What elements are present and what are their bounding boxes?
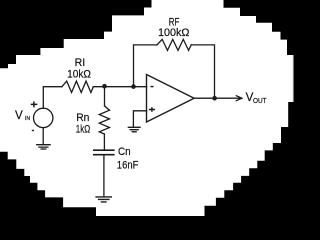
svg-text:V: V bbox=[15, 109, 23, 122]
black corner mask top-right bbox=[224, 0, 295, 55]
wire source bottom to ground bbox=[42, 128, 44, 145]
voltage source V_in circle bbox=[34, 108, 53, 127]
wire RF right to feedback vertical bbox=[191, 45, 214, 98]
ground under V_in bbox=[37, 145, 50, 149]
resistor Rn vertical zigzag bbox=[99, 106, 109, 134]
wire main horizontal left segment bbox=[43, 87, 62, 109]
black corner mask top-left bbox=[0, 0, 152, 68]
wire capacitor to ground bbox=[103, 156, 105, 197]
wire Rn to capacitor bbox=[103, 134, 105, 150]
resistor RI zigzag bbox=[62, 81, 93, 92]
capacitor Cn plates bbox=[94, 150, 114, 155]
svg-text:10kΩ: 10kΩ bbox=[67, 68, 91, 80]
black corner mask bottom-left bbox=[0, 152, 96, 216]
svg-text:16nF: 16nF bbox=[117, 160, 139, 172]
resistor RF zigzag bbox=[157, 39, 191, 50]
svg-text:Cn: Cn bbox=[118, 146, 131, 158]
arrowhead at V_OUT bbox=[236, 96, 242, 101]
junction node dot at output bbox=[212, 96, 217, 101]
wire plus input bbox=[133, 111, 146, 127]
minus sign of source bbox=[32, 130, 34, 131]
wire output to arrow bbox=[194, 97, 240, 99]
wire junction1 down to Rn bbox=[104, 87, 106, 106]
wire main horizontal right segment to op-amp minus input bbox=[93, 86, 146, 88]
svg-text:RI: RI bbox=[75, 57, 86, 69]
ground under Cn bbox=[96, 197, 111, 202]
op-amp plus sign bbox=[149, 107, 155, 112]
wire junction2 up to RF loop bbox=[134, 45, 157, 87]
svg-text:OUT: OUT bbox=[253, 96, 267, 105]
op-amp U1 triangle bbox=[147, 75, 195, 123]
ground under op-amp plus input bbox=[128, 127, 140, 132]
plus sign of source bbox=[31, 101, 38, 107]
op-amp minus sign bbox=[151, 86, 154, 88]
junction node dot at RF branch bbox=[131, 84, 136, 89]
black corner mask bottom-right bbox=[205, 102, 295, 216]
junction node dot at RI/Rn bbox=[102, 84, 107, 89]
svg-text:Rn: Rn bbox=[76, 112, 89, 124]
right edge sliver bbox=[293, 55, 294, 102]
svg-text:1kΩ: 1kΩ bbox=[76, 124, 90, 136]
svg-text:100kΩ: 100kΩ bbox=[158, 27, 189, 39]
svg-text:IN: IN bbox=[25, 116, 30, 122]
